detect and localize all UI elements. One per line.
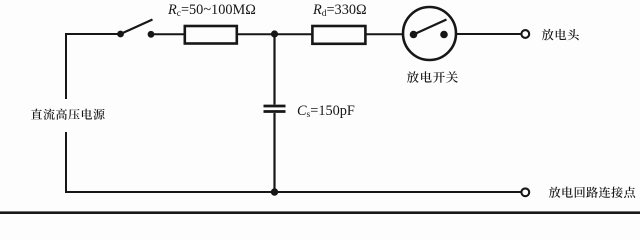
wire: top rail from corner to switch bbox=[65, 33, 121, 35]
label 放电开关 (discharge switch) bbox=[407, 71, 458, 83]
svg-text:Rd=330Ω: Rd=330Ω bbox=[312, 2, 367, 19]
wire: left vertical from source, upper segment bbox=[65, 33, 67, 99]
label 放电回路连接点 bbox=[549, 187, 635, 198]
svg-text:Rc=50~100MΩ: Rc=50~100MΩ bbox=[167, 2, 256, 19]
node: junction on bottom rail bbox=[271, 188, 278, 195]
node: junction at capacitor tap bbox=[271, 30, 278, 37]
switch S (charging switch) bbox=[117, 31, 154, 38]
capacitor Cs bbox=[264, 105, 286, 108]
resistor Rd bbox=[312, 26, 365, 44]
wire: junction down to capacitor bbox=[273, 34, 275, 105]
wire: Rc to Rd with junction bbox=[238, 33, 312, 35]
node: DC high-voltage source label 直流高压电源 bbox=[31, 109, 105, 120]
terminal: 放电回路连接点 (discharge-loop connection point) bbox=[521, 188, 529, 196]
svg-text:Cs=150pF: Cs=150pF bbox=[297, 103, 355, 120]
terminal: 放电头 (discharge head) bbox=[521, 30, 529, 38]
bottom scan border bar bbox=[0, 211, 640, 214]
switch: discharge switch 放电开关 (circle symbol) bbox=[403, 7, 456, 60]
wire: left vertical from source, lower segment bbox=[65, 132, 67, 193]
wire: capacitor down to bottom rail bbox=[273, 113, 275, 192]
wire: discharge switch to discharge head terminal bbox=[457, 33, 521, 35]
wire: bottom return rail bbox=[65, 191, 521, 193]
resistor Rc bbox=[185, 26, 237, 44]
wire: Rd to discharge switch bbox=[366, 33, 402, 35]
label 放电头 bbox=[542, 29, 579, 40]
wire: switch to resistor Rc bbox=[151, 33, 184, 35]
